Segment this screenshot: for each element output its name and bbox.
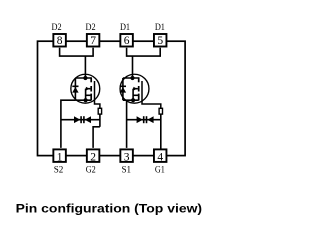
Q1 gate plate xyxy=(142,81,161,108)
resistor R1 (Q1 gate) xyxy=(159,108,162,114)
wire: R1 to pin 4 xyxy=(160,115,162,150)
Q1 source stub wire xyxy=(133,94,138,96)
Q1 body stub wire xyxy=(133,88,138,90)
pin 2 box xyxy=(87,149,100,162)
transistor Q2 (left MOSFET) xyxy=(71,74,100,108)
pin 1 box xyxy=(53,149,66,162)
svg-text:G1: G1 xyxy=(155,164,165,175)
Q1 body diode triangle xyxy=(120,87,126,93)
Q2 circle xyxy=(71,74,100,103)
pin 6 box xyxy=(120,34,133,47)
diode pair D1a/D1b (Q1 gate protection) xyxy=(127,116,161,123)
Q2 body diode triangle xyxy=(72,87,78,93)
wire: Q2 drain drop xyxy=(84,56,86,78)
svg-text:S2: S2 xyxy=(54,164,64,175)
svg-text:6: 6 xyxy=(124,35,130,47)
svg-text:D2: D2 xyxy=(52,22,62,33)
Q2 ESD diode bar 2 xyxy=(83,116,85,123)
Q1 circle xyxy=(120,74,149,103)
diode pair D2a/D2b (Q2 gate protection) xyxy=(61,116,100,123)
Q2 ESD diode right-pointing triangle xyxy=(74,116,80,123)
junction dot Q2 drain xyxy=(83,76,87,80)
Q1 body vertical wire xyxy=(132,89,134,101)
Q2 drain top bar xyxy=(75,77,91,79)
Q1 source bottom bar xyxy=(123,99,139,101)
Q2 source bottom bar xyxy=(75,99,91,101)
Q1 channel segment top xyxy=(138,77,140,82)
Q1 body diode branch wire xyxy=(122,78,124,100)
svg-text:4: 4 xyxy=(157,152,163,164)
wire: drain bus Q2 (pins 8,7) xyxy=(60,48,94,56)
svg-text:7: 7 xyxy=(90,35,96,47)
Q1 channel segment bottom xyxy=(138,94,140,101)
Q1 ESD diode bar 1 xyxy=(143,116,145,123)
Q2 body arrow xyxy=(86,87,90,91)
pin 3 box xyxy=(120,149,133,162)
Q1 ESD diode bar 2 xyxy=(146,116,148,123)
wire: Q2 source to pin 1 xyxy=(61,100,76,148)
Q2 ESD diode bar 1 xyxy=(80,116,82,123)
Q2 body vertical wire xyxy=(85,89,87,101)
Q2 channel segment top xyxy=(90,77,92,82)
wire: R2 to gate node xyxy=(99,115,101,127)
pin 5 box xyxy=(154,34,167,47)
Q2 channel segment middle xyxy=(90,86,92,92)
svg-text:D2: D2 xyxy=(86,22,96,33)
Q1 drain top bar xyxy=(123,77,139,79)
wire: Q2 gate jog to pin 2 xyxy=(93,127,100,148)
pin 7 box xyxy=(87,34,100,47)
Q2 body stub wire xyxy=(86,88,91,90)
Q1 ESD diode left-pointing triangle xyxy=(147,116,153,123)
junction dot Q2 source xyxy=(84,98,88,102)
package outline xyxy=(38,41,186,155)
Q1 body arrow xyxy=(133,87,137,91)
svg-text:G2: G2 xyxy=(86,164,96,175)
Q2 ESD diode left-pointing triangle xyxy=(85,116,91,123)
svg-text:Pin configuration (Top view): Pin configuration (Top view) xyxy=(16,204,203,216)
svg-text:D1: D1 xyxy=(155,22,165,33)
Q1 ESD diode right-pointing triangle xyxy=(137,116,143,123)
wire: Q1 ESD diode line xyxy=(127,119,161,121)
wire: Q1 drain drop xyxy=(132,56,134,78)
Q1 channel segment middle xyxy=(138,86,140,92)
Q2 channel segment bottom xyxy=(90,94,92,101)
Q1 body diode cathode bar xyxy=(120,85,126,87)
resistor R2 (Q2 gate) xyxy=(98,108,101,114)
wire: Q2 ESD diode line xyxy=(61,119,100,121)
junction dot Q1 drain xyxy=(130,76,134,80)
svg-text:8: 8 xyxy=(57,35,63,47)
svg-text:2: 2 xyxy=(90,152,96,164)
junction dot Q1 source xyxy=(131,98,135,102)
svg-text:S1: S1 xyxy=(122,164,132,175)
pin 4 box xyxy=(154,149,167,162)
Q2 body diode cathode bar xyxy=(72,85,78,87)
Q2 body diode branch wire xyxy=(74,78,76,100)
pin 8 box xyxy=(53,34,66,47)
Q2 gate plate xyxy=(95,81,100,108)
svg-text:3: 3 xyxy=(124,152,130,164)
svg-text:5: 5 xyxy=(157,35,163,47)
wire: Q1 source to pin 3 xyxy=(126,100,128,148)
wire: drain bus Q1 (pins 6,5) xyxy=(127,48,161,56)
svg-text:1: 1 xyxy=(57,152,63,164)
transistor Q1 (right MOSFET) xyxy=(120,74,161,108)
Q2 source stub wire xyxy=(86,94,91,96)
svg-text:D1: D1 xyxy=(120,22,130,33)
